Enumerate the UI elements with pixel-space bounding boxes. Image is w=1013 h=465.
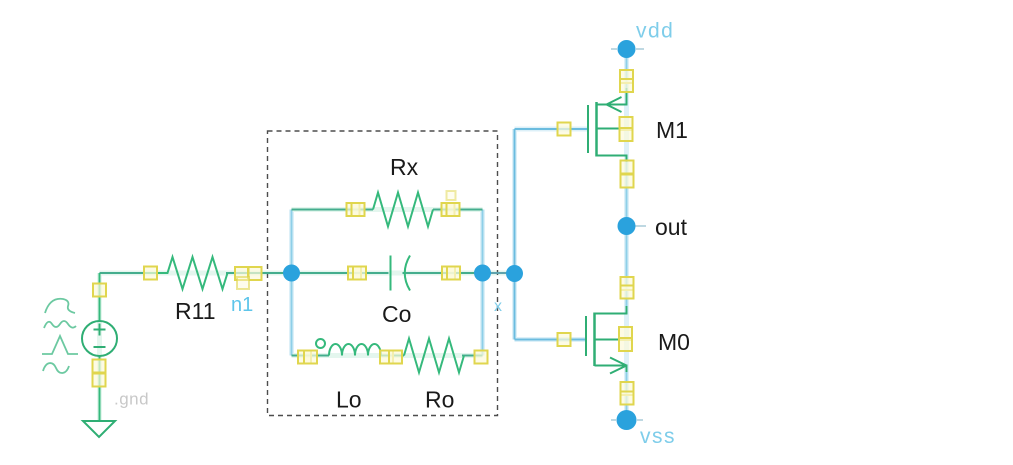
- transistor M0 (NMOS): [586, 306, 627, 374]
- pin (M1 gate): [558, 123, 571, 136]
- wire: source to R11: [100, 272, 168, 274]
- svg-text:x: x: [494, 298, 502, 315]
- pin (Rx left pair): [347, 203, 360, 216]
- resistor R11: [144, 257, 228, 289]
- wire: bottom branch Lo to Ro: [381, 355, 404, 357]
- wire: bottom branch right: [462, 355, 483, 357]
- pin (M0 bulk pair): [619, 327, 632, 340]
- capacitor Co: [391, 256, 411, 291]
- wire: right rail to gate bus node x: [483, 272, 515, 274]
- wire: source top lead: [99, 273, 101, 322]
- svg-text:Rx: Rx: [390, 154, 419, 180]
- svg-text:M0: M0: [658, 329, 690, 355]
- node vss: [611, 410, 643, 430]
- transistor M1 (PMOS): [588, 88, 627, 162]
- svg-text:out: out: [655, 214, 688, 240]
- wire: vdd to M1 drain: [626, 57, 628, 105]
- pin (Co left pair): [348, 267, 361, 280]
- wire: M1 source to out to M0 drain: [626, 156, 628, 314]
- wire: R11 to node n1/box: [226, 272, 292, 274]
- pin (M0 drain wire pair): [621, 277, 634, 290]
- inductor Lo: [316, 339, 381, 356]
- wire: tank left rail: [291, 210, 293, 356]
- pin (R11 left): [144, 267, 157, 280]
- svg-text:vdd: vdd: [636, 20, 674, 43]
- svg-text:.gnd: .gnd: [114, 390, 149, 409]
- svg-text:Co: Co: [382, 301, 411, 327]
- dashed selection box: [268, 131, 498, 416]
- wire: M1 gate lead: [515, 128, 589, 130]
- svg-text:R11: R11: [175, 298, 216, 324]
- wire: mid branch right (Co to right rail): [403, 272, 483, 274]
- node out: [618, 217, 647, 235]
- pin (M0 source wire pair): [621, 382, 634, 395]
- resistor Rx: [373, 193, 433, 227]
- pin (M1 bulk pair): [620, 117, 633, 130]
- pin (source top): [93, 284, 106, 297]
- wire: source bottom to ground: [99, 356, 101, 421]
- ground: [83, 421, 115, 437]
- voltage source V0: [82, 321, 117, 356]
- source waveform icons: [42, 299, 78, 373]
- wire: top branch right: [433, 209, 483, 211]
- wire halos: [292, 57, 627, 420]
- node n1 junction (left tank node): [283, 265, 300, 282]
- pin (source bottom pair): [93, 360, 106, 373]
- pin (vdd wire pair): [620, 70, 633, 83]
- svg-text:vss: vss: [640, 425, 676, 448]
- wire: M0 gate lead: [515, 339, 587, 341]
- wire: top branch left: [292, 209, 374, 211]
- resistor Ro: [404, 339, 464, 373]
- wire: bottom branch left: [292, 355, 330, 357]
- pin (Lo left pair): [298, 351, 311, 364]
- wire: M0 source to vss: [626, 366, 628, 421]
- wire: input net vertical (gate bus): [514, 129, 516, 340]
- pin (Co right pair): [442, 267, 455, 280]
- pin (M1 source wire pair): [621, 161, 634, 174]
- svg-text:Lo: Lo: [336, 387, 362, 413]
- pin squares: [93, 70, 634, 405]
- pin (M0 gate): [558, 333, 571, 346]
- wire: tank right rail: [482, 210, 484, 356]
- svg-text:Ro: Ro: [425, 387, 454, 413]
- pin (n1 label marker): [237, 277, 249, 289]
- svg-text:M1: M1: [656, 117, 688, 143]
- pin (Ro right): [475, 351, 488, 364]
- svg-text:n1: n1: [231, 294, 253, 316]
- node x junction (gate bus): [506, 265, 523, 282]
- pin (Lo-Ro pair): [380, 351, 393, 364]
- node junction (right tank node): [474, 265, 491, 282]
- pin (R11 right pair): [235, 267, 248, 280]
- wire: mid branch left (to Co): [292, 272, 389, 274]
- node vdd: [611, 40, 644, 58]
- pin (Rx right pair): [442, 203, 455, 216]
